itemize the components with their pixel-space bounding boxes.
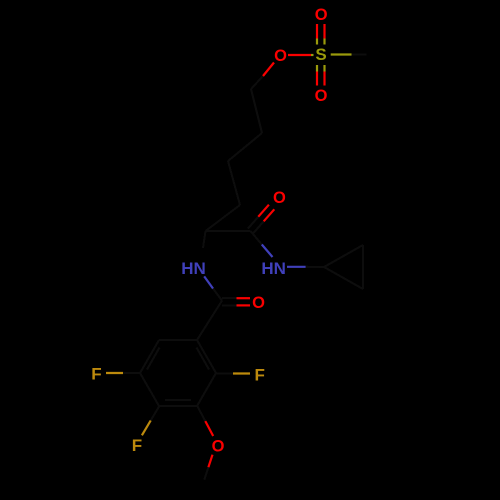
svg-text:O: O [315,87,328,105]
svg-text:O: O [212,437,225,455]
svg-text:O: O [273,189,286,207]
svg-text:O: O [252,294,265,312]
svg-text:S: S [315,45,326,64]
svg-text:F: F [132,436,142,455]
svg-text:HN: HN [181,259,206,278]
svg-text:O: O [315,6,328,24]
svg-text:O: O [274,47,287,65]
svg-text:F: F [255,366,265,385]
svg-text:HN: HN [261,259,286,278]
svg-text:F: F [91,365,101,384]
